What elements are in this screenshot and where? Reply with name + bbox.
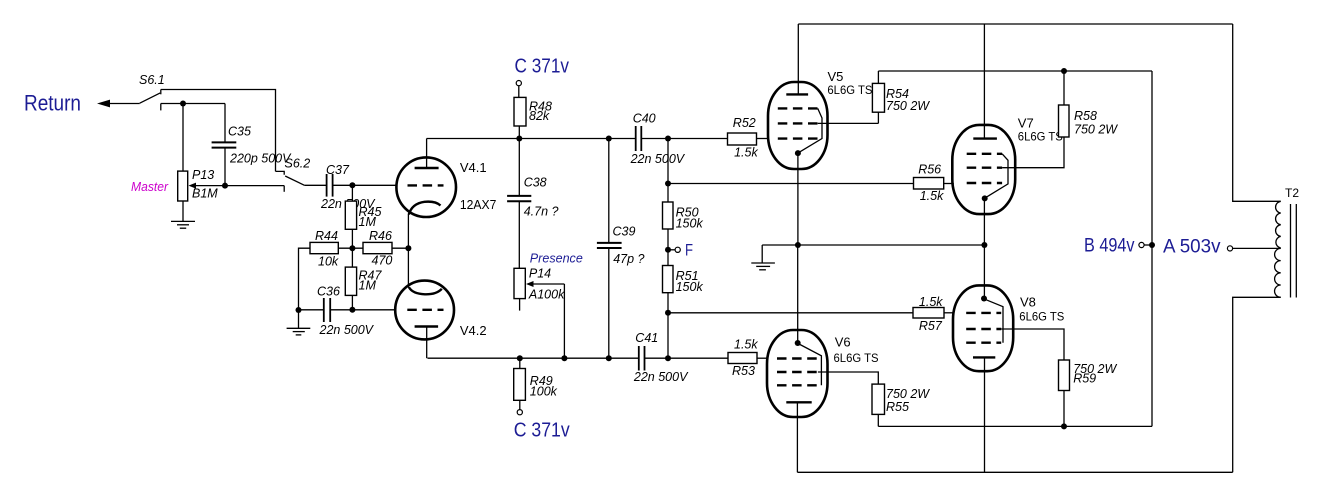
svg-text:B1M: B1M [192, 187, 218, 201]
wire anode rail bottom [428, 357, 639, 359]
node C 371v bottom terminal [514, 410, 570, 442]
wire V8 g2 to R59 [1001, 329, 1064, 360]
node junction C39 bottom [606, 355, 612, 361]
resistor R48 [514, 86, 552, 139]
wire cathode ground bus [762, 244, 984, 246]
wire screen rail top [878, 70, 1152, 72]
wire V7 g2 to R58 [1002, 137, 1064, 168]
node junction R58 top [1061, 68, 1067, 74]
svg-text:R57: R57 [919, 319, 943, 333]
node junction P13 top [180, 101, 186, 107]
svg-text:1M: 1M [359, 279, 377, 293]
svg-text:C36: C36 [317, 285, 340, 299]
svg-text:47p ?: 47p ? [613, 252, 644, 266]
svg-text:1.5k: 1.5k [919, 295, 943, 309]
node junction C39 top [606, 136, 612, 142]
svg-text:A100k: A100k [528, 288, 565, 302]
switch S6.2 [276, 157, 311, 186]
resistor R44 [310, 229, 363, 269]
potentiometer P14 [514, 267, 565, 359]
transformer T2 core [1291, 204, 1297, 298]
wire Return arrow [97, 100, 140, 108]
resistor R58 [1059, 71, 1119, 137]
node junction C40 right [665, 136, 671, 142]
svg-text:B 494v: B 494v [1084, 236, 1135, 257]
switch S6.1 [139, 73, 165, 110]
svg-text:Master: Master [131, 179, 169, 194]
node junction R48 bottom [516, 136, 522, 142]
svg-text:C41: C41 [635, 331, 658, 345]
svg-text:22n 500V: 22n 500V [633, 370, 689, 384]
svg-text:6L6G TS: 6L6G TS [834, 351, 879, 365]
node junction V5 V6 cathodes [795, 242, 801, 248]
wire V8 grid rail [668, 312, 913, 314]
svg-text:V6: V6 [835, 335, 851, 350]
svg-text:R44: R44 [315, 229, 338, 243]
svg-text:150k: 150k [676, 280, 704, 294]
svg-text:6L6G TS: 6L6G TS [1018, 130, 1063, 144]
svg-text:12AX7: 12AX7 [460, 197, 497, 212]
svg-text:P14: P14 [529, 267, 551, 281]
wire top anode frame [798, 23, 1232, 25]
ground below C36 [287, 310, 311, 335]
svg-text:V7: V7 [1018, 116, 1034, 131]
capacitor C39 [597, 139, 645, 359]
svg-text:C35: C35 [228, 125, 251, 139]
resistor R59 [1059, 360, 1118, 426]
wire right frame lower to transformer [1233, 297, 1281, 472]
svg-text:750 2W: 750 2W [1074, 123, 1118, 137]
resistor R45 [345, 185, 381, 248]
svg-text:C37: C37 [326, 163, 350, 177]
svg-text:R55: R55 [886, 400, 909, 414]
svg-text:C40: C40 [633, 112, 656, 126]
pentode V7 [952, 24, 1063, 299]
wire V6 g2 to R55 [818, 372, 878, 384]
node junction V8 grid rail [665, 310, 671, 316]
wire bottom anode frame [797, 471, 1232, 473]
svg-text:82k: 82k [529, 109, 550, 123]
wire P13 top lead [182, 104, 184, 172]
svg-text:V5: V5 [828, 69, 844, 84]
svg-text:R53: R53 [732, 364, 755, 378]
wire P13 wiper row [194, 186, 284, 192]
transformer T2 primary [1275, 186, 1300, 297]
svg-text:Presence: Presence [530, 251, 583, 265]
node Return [24, 91, 81, 116]
svg-text:P13: P13 [192, 168, 214, 182]
capacitor C37 [305, 163, 397, 211]
svg-text:T2: T2 [1285, 186, 1299, 200]
node junction cathode V4 [405, 245, 411, 251]
pentode V6 [767, 245, 879, 472]
svg-text:100k: 100k [530, 384, 558, 398]
resistor R55 [872, 384, 930, 426]
svg-text:A 503v: A 503v [1163, 237, 1221, 258]
svg-text:10k: 10k [318, 255, 339, 269]
node B 494v terminal [1084, 236, 1152, 257]
resistor R49 [514, 358, 558, 409]
svg-text:22n 500V: 22n 500V [319, 323, 375, 337]
resistor R46 [363, 229, 408, 268]
triode V4.1 [396, 139, 496, 249]
node junction C35 bottom [222, 183, 228, 189]
resistor R56 [914, 163, 954, 203]
triode V4.2 [395, 248, 486, 358]
svg-text:V4.1: V4.1 [460, 160, 487, 175]
svg-text:6L6G TS: 6L6G TS [827, 83, 872, 97]
svg-text:S6.1: S6.1 [139, 73, 165, 87]
ground below P13 [171, 201, 195, 228]
resistor R52 [728, 116, 769, 159]
svg-text:4.7n ?: 4.7n ? [524, 205, 559, 219]
node junction C37/R45 [349, 182, 355, 188]
svg-text:C39: C39 [613, 225, 636, 239]
svg-text:750 2W: 750 2W [886, 387, 930, 401]
svg-text:470: 470 [372, 254, 393, 268]
capacitor C35 [212, 104, 293, 186]
svg-text:C38: C38 [524, 176, 547, 190]
wire screen rail bottom [878, 425, 1152, 427]
resistor R53 [728, 337, 768, 378]
capacitor C40 [630, 112, 728, 167]
node junction V7 grid rail [665, 181, 671, 187]
resistor R51 [663, 266, 704, 295]
node junction R47 bottom [349, 307, 355, 313]
svg-text:C 371v: C 371v [514, 420, 570, 442]
wire S6.1 lower contact row [161, 103, 225, 105]
resistor R50 [663, 202, 704, 230]
node C 371v top terminal [515, 56, 570, 86]
svg-text:220p 500V: 220p 500V [229, 152, 292, 166]
pentode V5 [768, 24, 872, 245]
node junction C41 right [665, 355, 671, 361]
svg-text:22n 500V: 22n 500V [630, 152, 686, 166]
svg-text:6L6G TS: 6L6G TS [1019, 310, 1064, 324]
node junction V7 V8 cathodes [981, 242, 987, 248]
resistor R47 [345, 248, 382, 310]
svg-text:R58: R58 [1074, 109, 1097, 123]
resistor R57 [913, 295, 953, 333]
svg-text:S6.2: S6.2 [285, 157, 311, 171]
wire R44 left branch [299, 248, 311, 310]
pentode V8 [953, 285, 1064, 472]
node junction B [1149, 242, 1155, 248]
svg-text:150k: 150k [676, 216, 704, 230]
svg-text:V8: V8 [1020, 295, 1036, 310]
potentiometer P13 [178, 168, 219, 201]
resistor R54 [872, 71, 930, 123]
svg-text:R46: R46 [369, 229, 392, 243]
svg-text:C 371v: C 371v [515, 56, 570, 78]
capacitor C38 [507, 139, 558, 269]
svg-text:1.5k: 1.5k [734, 337, 758, 351]
wire V5 g2 to R54 [818, 122, 879, 124]
capacitor C41 [633, 331, 728, 384]
svg-text:1.5k: 1.5k [920, 189, 944, 203]
wire V7 grid rail [668, 183, 914, 185]
node F terminal [665, 241, 693, 260]
node A 503v terminal [1163, 237, 1281, 258]
wire right frame upper to transformer [1233, 24, 1281, 201]
node junction R45/R44/R46/R47 [349, 245, 355, 251]
svg-text:F: F [685, 241, 693, 260]
capacitor C36 [299, 285, 395, 338]
node junction R49 top [517, 355, 523, 361]
svg-text:750 2W: 750 2W [886, 99, 930, 113]
svg-text:R52: R52 [733, 116, 756, 130]
node junction R59 bottom [1061, 423, 1067, 429]
wire B supply column [1151, 71, 1153, 426]
svg-text:1.5k: 1.5k [734, 145, 758, 159]
ground output stage [751, 245, 775, 270]
svg-text:R56: R56 [918, 163, 941, 177]
wire S6.1 upper contact to S6.2 [161, 90, 276, 172]
svg-text:V4.2: V4.2 [460, 323, 487, 338]
svg-text:1M: 1M [359, 215, 377, 229]
svg-text:R59: R59 [1073, 372, 1096, 386]
wire anode rail top [427, 138, 636, 140]
node junction C36 left [296, 307, 302, 313]
wire divider column [667, 139, 669, 359]
node junction P14 drop [561, 355, 567, 361]
svg-text:Return: Return [24, 91, 81, 116]
